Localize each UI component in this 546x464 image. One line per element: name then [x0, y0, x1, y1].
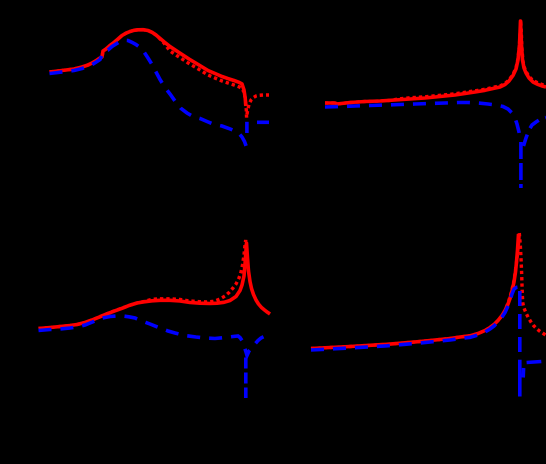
blue vertical drop BL (dashed) [244, 358, 248, 399]
red solid curve TR [325, 21, 546, 104]
red solid curve TL [50, 30, 246, 106]
blue vertical drop BR (dashed) [518, 291, 522, 352]
red dotted curve TR [325, 20, 546, 104]
blue vertical drop TR (dashed) [519, 142, 523, 188]
blue dashed curve BL [39, 316, 264, 356]
blue recovery branch TR (dashed) [524, 118, 546, 147]
blue vertical drop BR lower bar [518, 360, 522, 397]
red dotted curve TL [50, 30, 270, 118]
blue rise after dip TL (hand-placed dash) [247, 122, 269, 133]
blue recovery branch BR (hand dashes) [523, 362, 541, 378]
red dotted curve BR [311, 233, 546, 349]
red solid curve BR [311, 234, 519, 349]
blue dashed curve BR [311, 287, 519, 350]
blue dashed curve TL [50, 40, 247, 146]
red solid curve BL [39, 243, 271, 329]
red dotted curve BL [39, 240, 247, 329]
blue dashed curve TR [325, 103, 521, 141]
